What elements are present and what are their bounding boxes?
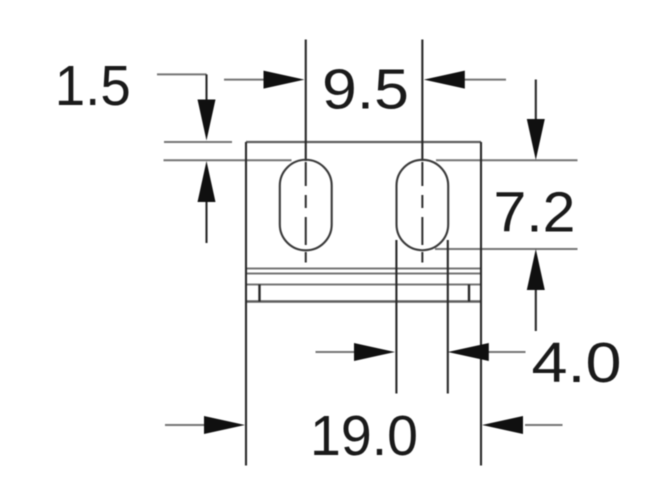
svg-text:19.0: 19.0 [310, 404, 418, 468]
svg-text:7.2: 7.2 [494, 180, 576, 244]
svg-text:9.5: 9.5 [322, 57, 409, 121]
svg-text:4.0: 4.0 [532, 331, 622, 395]
svg-text:1.5: 1.5 [55, 54, 131, 118]
